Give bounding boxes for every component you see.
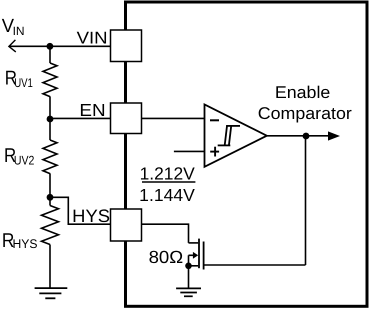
wire EN [50,117,111,119]
label RUV1 [5,67,33,90]
wire rail A [49,46,51,63]
wire VIN input [9,45,111,47]
ground left [35,288,68,298]
transistor Q1 drain stub [189,242,199,244]
node output arrow [328,131,340,140]
ground right [176,288,201,296]
pin VIN square [111,30,142,62]
svg-text:IN: IN [13,24,25,38]
resistor RHYS [42,206,59,245]
wire rail B [49,96,51,140]
svg-text:1.212V: 1.212V [140,163,196,183]
transistor Q1 channel bar [198,239,200,269]
op-amp U1 enable comparator [205,105,267,167]
label VIN source [2,16,25,38]
IC boundary box [126,2,368,306]
hysteresis symbol [218,126,240,145]
wire HYS link [50,197,111,224]
svg-text:1.144V: 1.144V [139,185,195,205]
label Enable Comparator [258,83,352,123]
svg-text:EN: EN [79,100,105,120]
node C junction dot [47,194,54,201]
pin minus [210,119,219,121]
svg-text:80Ω: 80Ω [149,247,184,267]
wire source to ground [188,266,190,289]
pin HYS square [111,209,142,241]
label RHYS [2,230,38,252]
transistor Q1 source stub [189,265,199,267]
pin plus [210,147,219,157]
wire EN to comparator [142,117,205,119]
node A junction dot [47,43,54,50]
pin EN square [111,103,142,134]
svg-text:HYS: HYS [72,206,110,226]
node VIN arrow [9,40,16,52]
node D junction dot [303,133,310,140]
node B junction dot [47,116,54,123]
wire body-source link [188,255,190,265]
node E junction dot [185,263,192,270]
wire feedback vertical [305,136,307,265]
label RUV2 [4,145,34,168]
wire reference stub [174,150,205,152]
svg-text:VIN: VIN [77,28,108,47]
svg-text:HYS: HYS [13,237,38,251]
wire HYS to drain [142,224,189,243]
transistor Q1 body arrow [189,252,199,259]
svg-text:UV1: UV1 [14,76,33,90]
divider line [142,181,195,183]
wire rail D [49,245,51,289]
wire comparator output [267,135,329,137]
wire gate [204,264,306,266]
svg-text:Enable: Enable [275,83,331,102]
resistor RUV1 [43,63,57,97]
svg-text:Comparator: Comparator [258,104,352,123]
wire rail C [49,173,51,205]
svg-text:UV2: UV2 [14,154,35,168]
resistor RUV2 [43,140,57,174]
transistor Q1 gate bar [203,242,205,270]
